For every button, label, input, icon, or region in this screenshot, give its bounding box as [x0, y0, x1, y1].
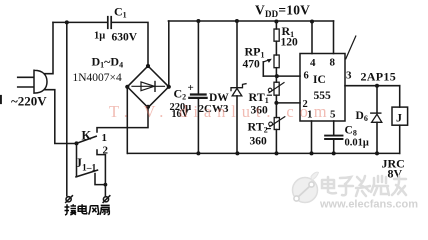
svg-text:120: 120 — [281, 37, 299, 49]
node C2 bottom — [196, 151, 200, 155]
gray watermark 电子发烧友 — [322, 176, 406, 196]
switch K contact 1 wire to bridge bottom — [97, 107, 148, 133]
svg-text:RT2: RT2 — [248, 120, 268, 135]
resistor R1 — [275, 22, 277, 30]
svg-text:D1~D4: D1~D4 — [92, 55, 124, 70]
wire pin2 — [276, 102, 300, 104]
svg-text:2: 2 — [103, 145, 109, 157]
wire plug bottom to switch K — [45, 90, 77, 144]
node RT2 bottom — [275, 151, 279, 155]
node AC top — [65, 20, 69, 24]
wire plug top to rail — [45, 22, 54, 73]
wire AC top rail to C1 — [53, 21, 107, 23]
svg-text:4: 4 — [310, 57, 316, 69]
svg-text:0.01μ: 0.01μ — [345, 138, 369, 149]
node pin2 — [274, 101, 278, 105]
svg-text:VDD=10V: VDD=10V — [255, 3, 310, 20]
diode D6 — [376, 86, 378, 113]
svg-text:C1: C1 — [114, 5, 127, 20]
svg-text:T. V. dianlut. com: T. V. dianlut. com — [109, 102, 333, 121]
node pin4 top — [310, 20, 314, 24]
gray watermark url — [319, 199, 418, 211]
thermistor RT1 — [274, 82, 279, 95]
switch K contact 2 wire to fan right — [97, 150, 105, 196]
node R1 top — [274, 20, 278, 24]
svg-text:8: 8 — [330, 57, 336, 69]
svg-text:C2: C2 — [174, 87, 187, 102]
stray slash mark — [346, 36, 356, 59]
IC U1 555 timer box — [300, 54, 345, 122]
bridge rectifier D1-D4 — [127, 66, 169, 108]
red watermark dianlut — [109, 102, 333, 121]
svg-text:RP1: RP1 — [245, 45, 265, 60]
relay coil J — [399, 86, 401, 107]
svg-text:K: K — [82, 129, 92, 143]
svg-text:C8: C8 — [345, 125, 357, 138]
potentiometer RP1 — [274, 55, 279, 68]
svg-text:www.elecfans.com: www.elecfans.com — [319, 199, 418, 211]
svg-text:D6: D6 — [356, 110, 368, 123]
capacitor C2 — [197, 21, 199, 94]
svg-text:470: 470 — [243, 59, 261, 71]
terminal fan right — [103, 197, 108, 202]
capacitor C1 — [108, 17, 111, 29]
svg-text:J1–1: J1–1 — [76, 155, 97, 174]
wire pin1 to ground — [311, 121, 313, 153]
svg-text:1μ: 1μ — [94, 31, 105, 42]
wire pin5 to C8 — [333, 121, 335, 135]
wire fan line left — [66, 22, 68, 195]
node C2 top — [196, 19, 200, 23]
svg-text:~220V: ~220V — [11, 94, 47, 109]
gray watermark logo — [293, 172, 319, 202]
svg-text:1N4007×4: 1N4007×4 — [73, 72, 123, 84]
ground rail — [128, 152, 400, 154]
switch K blade — [77, 136, 97, 143]
VDD rail — [168, 20, 333, 22]
svg-text:555: 555 — [314, 90, 332, 102]
svg-text:2AP15: 2AP15 — [361, 70, 397, 84]
thermistor RT2 — [274, 118, 279, 130]
svg-text:6: 6 — [304, 71, 309, 82]
zener diode DW — [236, 21, 238, 87]
svg-text:1: 1 — [102, 132, 108, 144]
node DW bottom — [235, 151, 239, 155]
node RP1 bottom — [275, 74, 279, 78]
wire C1 to bridge top — [112, 22, 148, 66]
plug P1 — [18, 77, 34, 87]
bridge diode symbol — [132, 85, 165, 87]
scan artifact left edge — [0, 96, 2, 103]
svg-text:IC: IC — [313, 74, 326, 86]
svg-text:J: J — [396, 111, 402, 125]
terminal fan left — [66, 197, 71, 202]
wire pin3 output — [345, 85, 400, 87]
svg-text:630V: 630V — [112, 32, 138, 44]
wire bridge minus to ground rail — [126, 87, 128, 154]
svg-text:+: + — [188, 82, 194, 94]
node DW top — [235, 19, 239, 23]
wire pin8 — [333, 21, 335, 54]
capacitor C8 — [325, 135, 342, 137]
relay contact J1-1 — [76, 143, 78, 176]
svg-text:3: 3 — [346, 70, 352, 82]
wire pin4 — [311, 22, 313, 54]
svg-text:360: 360 — [250, 136, 268, 148]
wire pin6 — [263, 75, 300, 77]
label fan chinese 接电风扇 — [65, 204, 110, 215]
wire bridge plus to VDD rail — [168, 21, 170, 87]
